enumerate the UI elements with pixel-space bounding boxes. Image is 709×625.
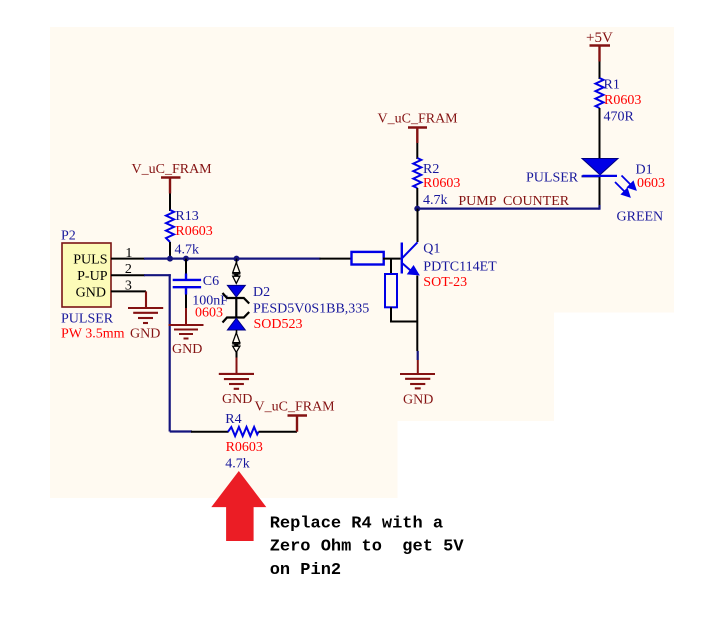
svg-text:PW 3.5mm: PW 3.5mm: [61, 327, 125, 342]
resistor R4 left pin: [191, 431, 229, 433]
svg-text:V_uC_FRAM: V_uC_FRAM: [255, 400, 336, 415]
LED D1 emission arrow 1: [622, 176, 636, 190]
sheet background block bottom: [50, 421, 398, 498]
svg-text:V_uC_FRAM: V_uC_FRAM: [132, 162, 213, 177]
capacitor C6 plates: [173, 280, 201, 287]
svg-text:Replace R4 with a: Replace R4 with a: [270, 514, 443, 533]
transistor Q1 base bar: [401, 243, 403, 274]
Q1 emitter wire to ground: [417, 351, 419, 360]
svg-text:GND: GND: [130, 327, 160, 342]
LED D1 triangle: [582, 159, 618, 175]
resistor R2 bottom pin: [416, 188, 418, 209]
svg-text:P-UP: P-UP: [77, 269, 108, 284]
ground symbol P2 pin3: [128, 291, 163, 323]
svg-text:R13: R13: [175, 209, 198, 224]
ground symbol D2: [219, 374, 254, 389]
transistor Q1 base-emitter resistor rect: [385, 274, 397, 307]
svg-text:SOD523: SOD523: [254, 317, 303, 332]
resistor R1 zigzag: [596, 78, 604, 108]
svg-text:PDTC114ET: PDTC114ET: [423, 259, 497, 274]
svg-text:470R: 470R: [604, 109, 635, 124]
svg-text:4.7k: 4.7k: [423, 193, 448, 208]
Q1 internal resistor bottom wire: [391, 307, 417, 321]
transistor Q1 emitter stroke with arrow: [402, 263, 418, 274]
svg-text:GND: GND: [403, 393, 433, 408]
D2 middle lead: [235, 297, 237, 318]
transistor Q1 collector stroke: [402, 242, 418, 258]
svg-text:P2: P2: [61, 229, 76, 244]
svg-text:PULSER: PULSER: [526, 171, 579, 186]
svg-text:GREEN: GREEN: [617, 210, 664, 225]
D2 bottom pin marker (hourglass): [232, 333, 240, 353]
wire LED cathode vertical: [599, 177, 601, 207]
svg-text:GND: GND: [76, 285, 106, 300]
sheet background block top: [50, 27, 674, 313]
svg-text:R0603: R0603: [175, 224, 212, 239]
ground symbol C6: [169, 325, 204, 339]
diode D2 lower TVS triangle: [227, 318, 245, 330]
junction dot R13/PULS: [167, 256, 173, 262]
connector P2 body: [62, 243, 111, 307]
resistor R2 zigzag: [413, 158, 421, 188]
annotation red arrow: [211, 471, 266, 541]
svg-text:PESD5V0S1BB,335: PESD5V0S1BB,335: [253, 301, 369, 316]
resistor R4 left wire: [170, 430, 192, 432]
resistor R1 top pin: [599, 62, 601, 80]
junction dot R2/collector: [414, 206, 420, 212]
wire PULS black pin into Q1: [320, 258, 353, 260]
pin 3 stub: [111, 290, 146, 292]
svg-text:PULS: PULS: [73, 253, 107, 268]
D2 top pin marker (hourglass): [232, 263, 240, 284]
svg-text:C6: C6: [203, 274, 219, 289]
LED D1 cathode bar: [583, 175, 618, 177]
power port V_uC_FRAM (R4) stem: [296, 416, 298, 432]
svg-text:Q1: Q1: [423, 241, 440, 256]
capacitor C6 top lead: [185, 259, 187, 274]
svg-text:0603: 0603: [637, 176, 665, 191]
svg-text:4.7k: 4.7k: [175, 242, 200, 257]
resistor R1 bottom pin: [599, 108, 601, 159]
svg-text:SOT-23: SOT-23: [423, 275, 467, 290]
svg-text:+5V: +5V: [586, 30, 613, 46]
wire PULS net main horizontal: [144, 258, 321, 260]
Q1 emitter pin: [416, 276, 418, 352]
svg-text:V_uC_FRAM: V_uC_FRAM: [378, 111, 459, 126]
power port V_uC_FRAM (R13) bar: [161, 178, 181, 194]
svg-text:Zero Ohm to get 5V: Zero Ohm to get 5V: [270, 538, 465, 557]
resistor R13 zigzag: [166, 210, 174, 242]
svg-text:R4: R4: [225, 412, 241, 427]
pin 2 stub: [111, 274, 145, 276]
svg-text:R0603: R0603: [423, 176, 460, 191]
svg-text:4.7k: 4.7k: [225, 457, 250, 472]
D2 ground stem: [236, 352, 238, 358]
resistor R2 top pin: [416, 143, 418, 159]
diode D2 lower zener bar: [223, 312, 250, 323]
svg-text:R1: R1: [604, 78, 620, 93]
Q1 internal resistor drop wire: [390, 259, 392, 274]
C6 ground stem: [185, 308, 187, 325]
resistor R4 zigzag: [228, 427, 259, 436]
svg-text:GND: GND: [172, 342, 202, 357]
junction dot D2/PULS: [234, 256, 240, 262]
power port +5V bar: [590, 46, 611, 62]
power port V_uC_FRAM (R2) bar: [408, 128, 427, 144]
Q1 base pin: [383, 258, 401, 260]
svg-text:PULSER: PULSER: [61, 311, 114, 326]
svg-text:on Pin2: on Pin2: [270, 561, 341, 580]
transistor Q1 base resistor rect: [352, 252, 384, 265]
diode D2 upper TVS triangle: [227, 285, 245, 297]
resistor R13 bottom pin: [169, 242, 171, 259]
wire P-UP vertical down: [169, 274, 171, 431]
D2 bottom lead: [236, 330, 238, 333]
svg-text:D2: D2: [253, 285, 270, 300]
wire PULSER stub: [582, 175, 600, 177]
wire P-UP horizontal to corner: [144, 274, 171, 276]
power port V_uC_FRAM (R4) bar: [288, 414, 308, 416]
svg-text:PUMP COUNTER: PUMP COUNTER: [458, 194, 569, 209]
sheet background block middle: [50, 313, 554, 422]
capacitor C6 junction dot: [183, 256, 189, 262]
pin 1 stub: [111, 258, 145, 260]
Q1 ground stem: [417, 360, 419, 374]
D2 top lead: [236, 259, 238, 263]
ground symbol Q1: [400, 374, 435, 388]
svg-text:R0603: R0603: [604, 93, 641, 108]
wire PUMP COUNTER horizontal: [417, 208, 599, 210]
svg-text:GND: GND: [222, 392, 252, 407]
resistor R13 top pin: [169, 194, 171, 212]
svg-text:R0603: R0603: [226, 440, 263, 455]
LED D1 emission arrow 2: [615, 182, 630, 197]
svg-text:R2: R2: [423, 162, 439, 177]
Q1 collector pin: [417, 209, 419, 242]
diode D2 upper zener bar: [223, 293, 250, 304]
capacitor C6 bottom lead: [185, 288, 187, 294]
resistor R4 right pin: [259, 431, 298, 433]
svg-text:0603: 0603: [195, 306, 223, 321]
